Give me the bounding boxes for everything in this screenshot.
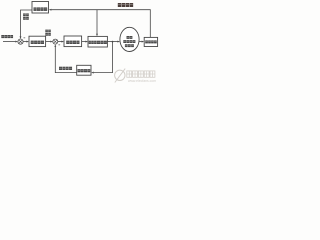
- block PWM逆变器 (PWM inverter): [88, 36, 107, 47]
- wire: motor to position sensor box: [139, 41, 144, 43]
- motor text line2 无刷直流: [123, 40, 135, 43]
- watermark 电子发烧友 (stylized outline glyphs): [127, 71, 155, 77]
- block 电流调节 (current regulator): [64, 36, 82, 47]
- label 转速反馈 line2 反馈: [23, 17, 29, 20]
- summing junction 1 (speed error): [18, 39, 23, 44]
- node: speed reference input arrow: [3, 41, 18, 43]
- label 电流给定 line1 电流: [45, 30, 51, 33]
- label 转速给定 (speed reference): [1, 35, 13, 38]
- block 位置检测 (position sensor): [144, 37, 157, 46]
- wire: speed regulator to summing junction 2: [46, 41, 53, 43]
- label 转速反馈 line1 转速: [23, 13, 29, 16]
- wire: speed feedback from speed-calc box left edge down into summing junction 1: [20, 10, 32, 39]
- summing junction 2 (current error): [53, 39, 58, 44]
- wire: junction1 to speed regulator box: [23, 41, 29, 43]
- block 转速计算 (speed calculation): [32, 2, 49, 14]
- label 位置信号 (position signal, top right): [118, 3, 133, 7]
- text 位置检测: [145, 40, 157, 43]
- wire: current tap down and left into current detection box: [91, 42, 112, 74]
- label 电流给定 line2 给定: [45, 33, 51, 36]
- label 电流反馈 (current feedback): [59, 67, 72, 70]
- wire: current feedback from detection box left, up into summing junction 2: [54, 44, 76, 72]
- minus sign at summing junction 1: [24, 37, 26, 40]
- svg-text:www.elecfans.com: www.elecfans.com: [128, 79, 156, 83]
- motor 三相无刷直流电动机 (3-phase brushless DC motor): [120, 27, 139, 51]
- motor text line3 电动机: [125, 44, 134, 47]
- wire: position feedback top line from sensor box up and left into speed-calc box: [49, 9, 151, 38]
- text PWM逆变器: [89, 41, 107, 44]
- minus sign at summing junction 2: [58, 44, 60, 47]
- block 电流检测 (current detection): [77, 65, 91, 75]
- text 电流检测: [78, 69, 91, 72]
- text 转速计算: [34, 7, 48, 10]
- block 转速调节 (speed regulator): [29, 36, 46, 46]
- wire: junction2 to current regulator box: [58, 41, 64, 43]
- node: current tap junction dot: [112, 41, 114, 43]
- motor text line1 三相: [127, 36, 133, 39]
- wire: PWM inverter to motor: [107, 41, 120, 43]
- wire: current regulator to PWM inverter: [82, 41, 88, 43]
- text 转速调节: [31, 41, 44, 44]
- watermark logo circle (elecfans): [115, 69, 126, 83]
- text 电流调节: [66, 41, 79, 44]
- wire: position signal branch down into PWM inverter box top: [96, 10, 98, 37]
